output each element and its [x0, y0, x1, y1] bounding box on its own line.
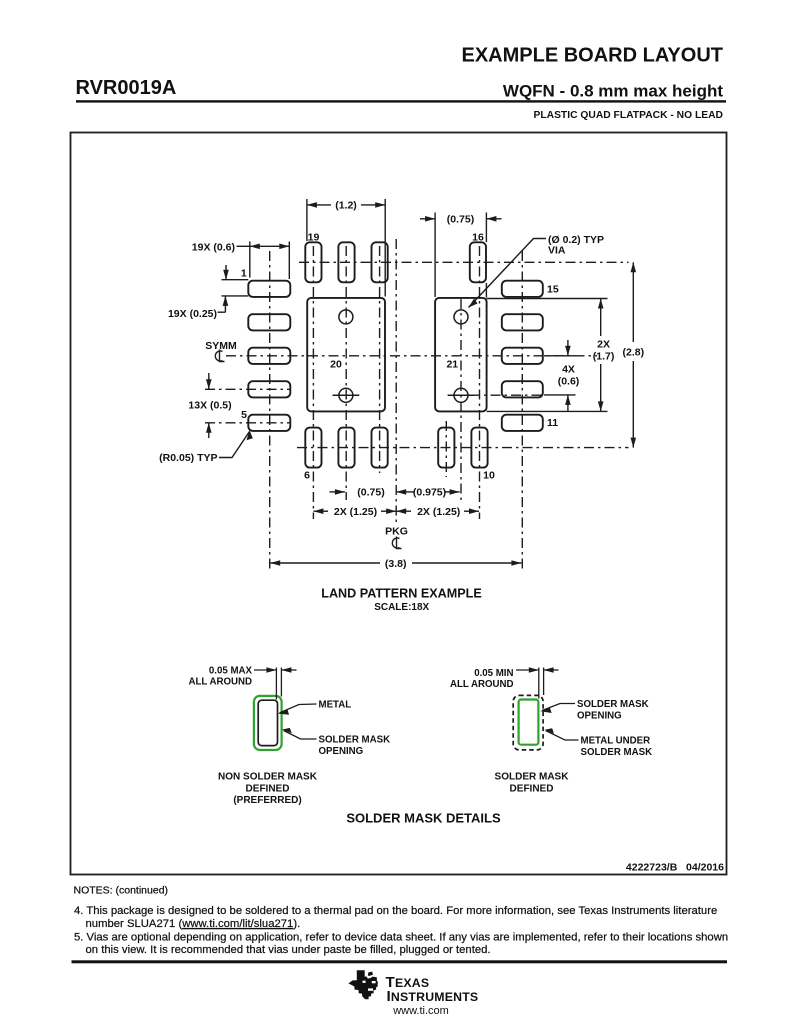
dim (3.8) line: [270, 562, 380, 564]
svg-text:(R0.05) TYP: (R0.05) TYP: [159, 452, 217, 464]
svg-text:PLASTIC QUAD FLATPACK - NO LEA: PLASTIC QUAD FLATPACK - NO LEAD: [533, 110, 723, 121]
svg-text:(0.75): (0.75): [357, 487, 384, 499]
dim 19X (0.25) tick top: [222, 279, 249, 281]
svg-text:ALL AROUND: ALL AROUND: [450, 679, 514, 690]
dim (0.75) top extension lines: [434, 213, 436, 298]
svg-text:SOLDER MASK: SOLDER MASK: [577, 699, 649, 710]
dim 19X (0.6) leader line: [237, 245, 250, 247]
svg-text:(0.6): (0.6): [558, 375, 580, 387]
2X (1.25) left arrows: [313, 508, 323, 514]
dim 0.05 MAX arrowheads: [266, 667, 291, 673]
dim (2.8) line: [632, 262, 634, 342]
via bottom-right in pad 21: [454, 388, 468, 402]
svg-text:(1.7): (1.7): [593, 351, 615, 363]
pad 18: [338, 242, 354, 282]
NSMD metal pad: [258, 700, 277, 745]
svg-text:(2.8): (2.8): [623, 346, 645, 358]
svg-text:on this view. It is recommende: on this view. It is recommended that via…: [86, 944, 491, 956]
via column centerline pad 21: [460, 299, 462, 500]
svg-text:1: 1: [241, 268, 247, 280]
leader METAL UNDER SOLDER MASK: [546, 731, 579, 740]
via top-left in pad 20: [339, 310, 353, 324]
svg-text:11: 11: [547, 417, 558, 429]
pad 1: [248, 281, 290, 297]
svg-text:21: 21: [446, 359, 458, 371]
svg-text:PKG: PKG: [385, 526, 408, 538]
pad 8: [372, 428, 388, 468]
(0.75) bottom arrows: [335, 489, 345, 495]
svg-text:INSTRUMENTS: INSTRUMENTS: [387, 988, 479, 1005]
svg-text:METAL: METAL: [319, 700, 352, 711]
dim 4X (0.6) arrow tails: [567, 340, 569, 356]
pad 18/7 via column centerline: [345, 246, 347, 500]
footer rule: [72, 960, 728, 963]
dim 13X (0.5) arrow tails: [208, 373, 210, 389]
right pad column centerline: [521, 251, 523, 571]
dim 0.05 MIN arrowheads: [529, 667, 554, 673]
pad 10: [471, 428, 487, 468]
svg-text:www.ti.com: www.ti.com: [392, 1005, 449, 1017]
thermal pad 20: [307, 298, 385, 412]
svg-text:(0.75): (0.75): [447, 214, 474, 226]
pad 4: [248, 381, 290, 397]
DIMENSIONS: [209, 199, 634, 563]
svg-text:15: 15: [547, 284, 559, 296]
svg-text:10: 10: [483, 469, 495, 481]
svg-text:2X (1.25): 2X (1.25): [334, 506, 377, 518]
19X (0.6) arrows: [250, 244, 260, 250]
svg-text:6: 6: [304, 469, 310, 481]
thermal pad 21: [435, 298, 487, 412]
dim 2X (1.7) line: [600, 299, 602, 337]
package vertical centerline: [395, 239, 397, 522]
svg-text:DEFINED: DEFINED: [246, 784, 290, 795]
symm centerline symbol: [215, 350, 224, 362]
dim 2X (1.25) left arrow tails: [313, 510, 328, 512]
pkg centerline symbol: [392, 537, 401, 549]
pad 5: [248, 415, 290, 431]
via bottom-left in pad 20: [339, 388, 353, 402]
svg-text:19: 19: [308, 231, 320, 243]
svg-text:5: 5: [241, 409, 247, 421]
svg-text:19X (0.6): 19X (0.6): [192, 242, 235, 254]
13X (0.5) arrows: [206, 379, 212, 389]
pad 17/8 column centerline: [379, 246, 381, 473]
(0.75) top arrows: [425, 216, 435, 222]
pad 2: [248, 314, 290, 330]
dim (0.75) bottom arrow tails: [330, 491, 345, 493]
svg-text:SOLDER MASK: SOLDER MASK: [581, 747, 653, 758]
19X (0.25) arrows: [223, 270, 229, 280]
pad 9: [438, 428, 454, 468]
svg-text:SOLDER MASK DETAILS: SOLDER MASK DETAILS: [346, 811, 501, 826]
dim 19X (0.6) line: [250, 245, 289, 247]
svg-text:SOLDER MASK: SOLDER MASK: [319, 735, 391, 746]
pad 15: [502, 281, 543, 297]
svg-text:5. Vias are optional depending: 5. Vias are optional depending on applic…: [74, 931, 728, 943]
svg-text:EXAMPLE BOARD LAYOUT: EXAMPLE BOARD LAYOUT: [461, 45, 723, 67]
NSMD solder mask opening (green): [254, 696, 282, 750]
svg-text:4222723/B 04/2016: 4222723/B 04/2016: [626, 862, 724, 874]
dim 0.05 MAX arrow tails: [254, 669, 276, 671]
svg-text:NOTES: (continued): NOTES: (continued): [74, 885, 169, 897]
dim 4X (0.6) ext top: [544, 355, 576, 357]
pad 9 centerline: [445, 421, 447, 477]
pad 4 row centerline: [205, 388, 291, 390]
pad 7: [338, 428, 354, 468]
dim 19X (0.6) extension lines: [249, 242, 251, 278]
svg-text:4X: 4X: [562, 363, 575, 375]
pad 13: [502, 348, 543, 364]
svg-text:OPENING: OPENING: [577, 710, 622, 721]
pad 16: [470, 242, 486, 282]
svg-text:2X (1.25): 2X (1.25): [417, 506, 460, 518]
(3.8) arrows: [270, 560, 280, 566]
TI logo bug: [348, 970, 377, 999]
dim 0.05 MIN arrow tails: [516, 669, 539, 671]
svg-text:19X (0.25): 19X (0.25): [168, 308, 217, 320]
(1.2) arrows: [307, 202, 317, 208]
dim 0.05 MIN extension lines: [516, 668, 559, 699]
pad 6: [305, 428, 321, 468]
via bottom-left crosshair: [333, 394, 360, 396]
top pads row centerline: [299, 261, 629, 263]
dim 0.05 MAX extension lines: [254, 668, 297, 700]
svg-text:number SLUA271 (www.ti.com/lit: number SLUA271 (www.ti.com/lit/slua271).: [86, 918, 301, 930]
svg-text:LAND PATTERN EXAMPLE: LAND PATTERN EXAMPLE: [321, 587, 481, 601]
ARROWHEADS: [206, 202, 636, 566]
DIMENSION LABELS: [159, 200, 644, 570]
dim 2X (1.7) extension lines: [487, 298, 608, 300]
leader via callout: [469, 239, 547, 308]
drawing border frame: [71, 133, 727, 875]
pad 19/6 column centerline: [312, 246, 314, 519]
svg-text:0.05 MIN: 0.05 MIN: [474, 668, 513, 679]
svg-text:OPENING: OPENING: [319, 746, 364, 757]
bottom pads row centerline: [297, 447, 629, 449]
dim 2X (1.25) right arrow tails: [396, 510, 411, 512]
2X (1.25) right arrows: [396, 508, 406, 514]
symm centerline horizontal: [226, 355, 597, 357]
dim (0.975) arrow tails: [445, 491, 460, 493]
SMD metal under mask (dashed): [513, 695, 543, 750]
svg-text:(1.2): (1.2): [335, 200, 357, 212]
pad 17: [372, 242, 388, 282]
dim 4X (0.6) ext bottom: [544, 394, 576, 396]
leader SOLDER MASK OPENING (right): [542, 704, 575, 711]
svg-text:NON SOLDER MASK: NON SOLDER MASK: [218, 772, 318, 783]
svg-text:SYMM: SYMM: [205, 340, 237, 352]
4X (0.6) arrows: [565, 346, 571, 356]
svg-text:WQFN - 0.8 mm max height: WQFN - 0.8 mm max height: [503, 82, 723, 101]
svg-text:20: 20: [330, 359, 342, 371]
(0.975) arrow: [450, 489, 460, 495]
leader (R0.05) TYP: [219, 432, 250, 458]
svg-text:13X (0.5): 13X (0.5): [188, 400, 231, 412]
pad 16/10 column centerline: [479, 246, 481, 519]
svg-text:16: 16: [472, 231, 484, 243]
CENTERLINES: [205, 239, 629, 571]
bottom via row centerline right: [470, 394, 544, 396]
svg-text:(PREFERRED): (PREFERRED): [233, 795, 301, 806]
dim (1.2) extension lines: [306, 199, 308, 241]
svg-text:VIA: VIA: [548, 245, 566, 257]
SMD solder mask opening (green): [519, 700, 539, 745]
pad 19: [305, 242, 321, 282]
via callout arrow: [469, 299, 478, 308]
svg-text:(3.8): (3.8): [385, 558, 407, 570]
leader METAL: [280, 704, 317, 713]
dim 19X (0.25) tick bottom: [222, 295, 249, 297]
svg-text:(0.975): (0.975): [413, 487, 446, 499]
svg-text:0.05 MAX: 0.05 MAX: [209, 665, 253, 676]
(R0.05) arrow: [247, 430, 253, 440]
pad 14: [502, 314, 543, 330]
via bottom-right crosshair: [448, 394, 475, 396]
header rule: [76, 100, 726, 102]
dim (1.2) line: [307, 204, 331, 206]
left pad column centerline: [269, 251, 271, 571]
svg-text:2X: 2X: [597, 339, 610, 351]
dim 19X (0.25) arrow tails: [225, 265, 227, 280]
svg-text:ALL AROUND: ALL AROUND: [188, 677, 252, 688]
pad 3: [248, 348, 290, 364]
pad 5 row centerline: [205, 422, 291, 424]
via top-right in pad 21: [454, 310, 468, 324]
svg-text:METAL UNDER: METAL UNDER: [581, 736, 651, 747]
2X (1.7) arrows: [598, 299, 604, 309]
(2.8) arrows: [631, 262, 637, 272]
svg-text:TEXAS: TEXAS: [386, 974, 430, 991]
leader SOLDER MASK OPENING (left): [284, 731, 317, 740]
svg-text:SOLDER MASK: SOLDER MASK: [495, 772, 570, 783]
svg-text:SCALE:18X: SCALE:18X: [374, 602, 429, 613]
svg-text:DEFINED: DEFINED: [510, 784, 554, 795]
svg-text:RVR0019A: RVR0019A: [76, 77, 177, 99]
pad 11: [502, 415, 543, 431]
dim (0.75) top arrow tails: [420, 218, 435, 220]
pad 12: [502, 381, 543, 397]
svg-text:4. This package is designed to: 4. This package is designed to be solder…: [74, 905, 717, 917]
